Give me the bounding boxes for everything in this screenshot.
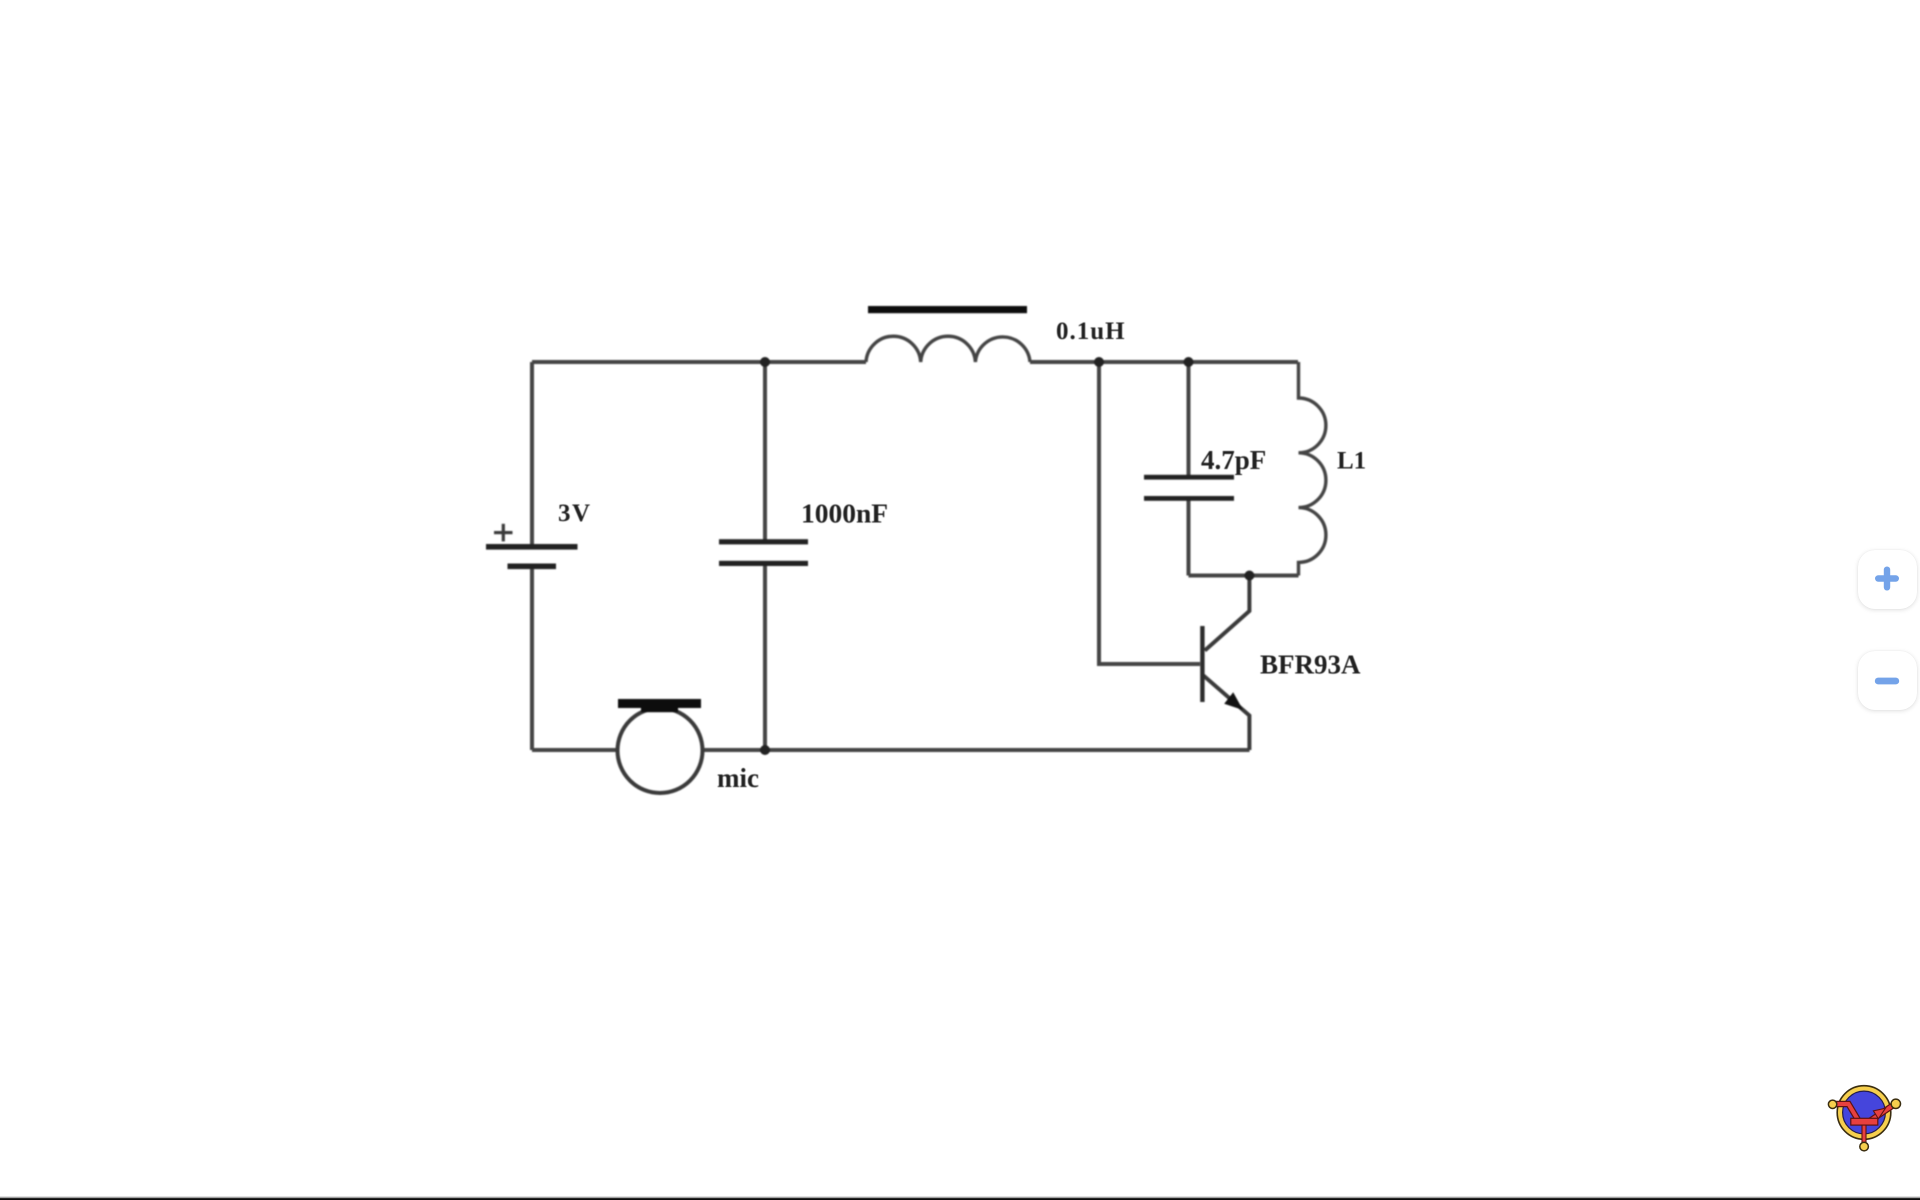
wire left vertical lower (battery bottom lead) (530, 568, 534, 750)
capacitor 1000nF top lead (763, 362, 767, 540)
wire bottom middle (mic to emitter) (702, 748, 1250, 752)
node C2 top (1184, 357, 1194, 367)
capacitor 4.7pF top lead (1187, 362, 1191, 476)
microphone diaphragm bar (618, 699, 701, 708)
logo base lead (1862, 1125, 1866, 1144)
transistor Q1 emitter arrow (1224, 692, 1243, 710)
transistor Q1 collector lead (1205, 576, 1250, 651)
capacitor 4.7pF bottom lead (1187, 500, 1191, 576)
battery B1 positive plate (486, 544, 578, 550)
node tank bottom / collector (1244, 571, 1254, 581)
logo base bar (1851, 1118, 1878, 1125)
logo inner disc (1843, 1091, 1886, 1134)
svg-text:BFR93A: BFR93A (1260, 650, 1361, 680)
logo emitter arrow (1873, 1108, 1885, 1119)
capacitor C1 1000nF bottom plate (719, 561, 808, 566)
transistor Q1 base bar (1200, 626, 1204, 702)
inductor 0.1uH core bar (868, 306, 1027, 313)
microphone inner bar (641, 708, 678, 712)
svg-text:mic: mic (717, 763, 759, 793)
battery B1 negative plate (508, 564, 557, 570)
zoom-out button (1858, 651, 1917, 710)
logo lead dots (1828, 1099, 1900, 1151)
wire right vertical to base (1099, 362, 1200, 664)
capacitor 1000nF bottom lead (763, 566, 767, 750)
site logo (transistor badge) (1824, 1072, 1908, 1156)
inductor L1 coil (1299, 362, 1326, 576)
zoom-in button (1858, 550, 1917, 609)
capacitor C2 4.7pF top plate (1144, 475, 1234, 480)
node C1 bottom (760, 745, 770, 755)
logo outer ring (1837, 1086, 1891, 1140)
logo emitter lead (1869, 1104, 1895, 1122)
wire top left (battery+ to inductor) (532, 360, 866, 364)
plus glyph (1878, 570, 1896, 588)
wire bottom left (battery to mic) (532, 748, 618, 752)
svg-text:0.1uH: 0.1uH (1056, 318, 1126, 345)
capacitor C2 4.7pF bottom plate (1144, 496, 1234, 501)
node battery/C1 top (760, 357, 770, 367)
wire tank bottom (1189, 574, 1299, 578)
bottom progress bar (0, 1196, 1920, 1200)
transistor Q1 emitter lead (1203, 676, 1249, 751)
capacitor C1 1000nF top plate (719, 539, 808, 544)
svg-text:1000nF: 1000nF (801, 498, 888, 529)
wire top right (inductor to L1) (1030, 360, 1298, 364)
inductor 0.1uH windings (866, 336, 1030, 362)
node base branch (1094, 357, 1104, 367)
logo collector lead (1833, 1104, 1858, 1120)
svg-text:3V: 3V (558, 500, 592, 527)
svg-text:4.7pF: 4.7pF (1201, 445, 1266, 475)
microphone body (618, 708, 703, 793)
wire left vertical upper (battery top lead) (530, 362, 534, 545)
minus glyph (1878, 678, 1896, 685)
svg-text:L1: L1 (1337, 448, 1366, 475)
battery plus sign (494, 524, 513, 542)
